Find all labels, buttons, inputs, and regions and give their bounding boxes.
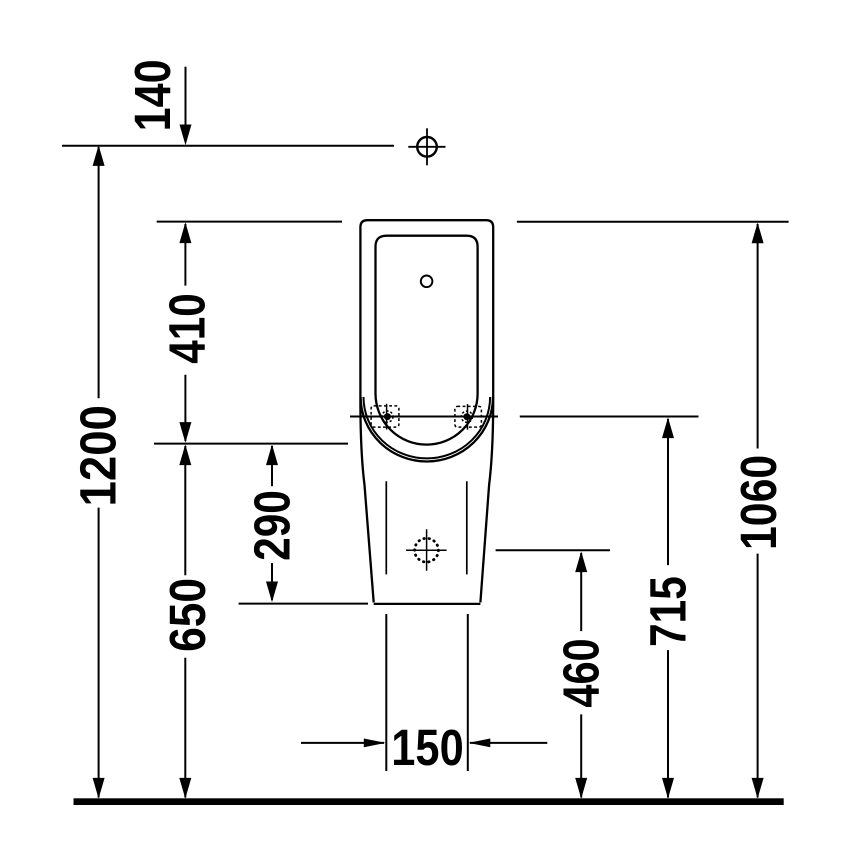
arrow up 460 [575, 551, 587, 572]
svg-text:715: 715 [640, 576, 697, 647]
extension line for 715 [520, 416, 699, 418]
svg-text:1200: 1200 [70, 405, 127, 506]
urinal bottom edge [374, 603, 481, 605]
arrow left 150 [469, 739, 491, 748]
dimension 150 left arrow line [301, 742, 384, 744]
svg-text:1060: 1060 [730, 455, 787, 550]
fixing hole left dashed box [371, 406, 399, 427]
outlet crosshair vertical [426, 529, 428, 571]
svg-text:460: 460 [553, 638, 610, 707]
arrow down 715 [662, 778, 674, 799]
crosshair target symbol [408, 128, 445, 165]
inner rim outline [376, 236, 478, 445]
dimension 1060 line [757, 224, 759, 449]
left extension line at top of urinal [157, 221, 342, 223]
extension line 410/650 boundary [154, 443, 348, 445]
dimension 150 right arrow line [470, 742, 547, 744]
dimension 1200 line [98, 147, 100, 398]
extension line at bowl bottom left (290 bottom) [239, 603, 368, 605]
arrow down 460 [575, 778, 587, 799]
fixing hole right dashed circle [461, 411, 472, 422]
fixing holes centerline [350, 416, 498, 418]
fixing hole left dashed circle [382, 411, 393, 422]
fixing hole left dot [384, 413, 391, 420]
dimension 715 line [667, 419, 669, 565]
arrow up 650 [179, 444, 191, 465]
urinal left taper edge [360, 404, 373, 602]
inner bowl arc [364, 397, 491, 458]
urinal outer outline [360, 220, 493, 404]
urinal right taper edge [480, 404, 493, 602]
svg-text:410: 410 [158, 293, 215, 364]
dimension 650 line [184, 446, 186, 575]
dimension 460 line [580, 553, 582, 631]
150 extension line right [467, 614, 469, 771]
svg-text:650: 650 [159, 578, 216, 652]
150 extension line left [385, 614, 387, 771]
outlet hole dotted circle [415, 538, 439, 562]
outlet crosshair horizontal [406, 549, 447, 551]
arrow down 650 [179, 778, 191, 799]
ground line [74, 798, 784, 805]
top reference line (1200 level) [62, 145, 394, 147]
arrow up 1060 [752, 223, 764, 244]
arrow up 715 [662, 417, 674, 438]
svg-text:140: 140 [124, 59, 181, 131]
right extension line at top of urinal [517, 221, 789, 223]
arrow right 150 [364, 739, 386, 748]
front crease line left [385, 481, 387, 574]
arrow down 410 [179, 422, 191, 443]
arrow up 410 [179, 222, 191, 243]
arrow up 1200 [93, 145, 105, 166]
fixing hole left vertical centerline [386, 404, 388, 430]
arrow up 290 [266, 444, 278, 465]
extension line for 460 [496, 549, 610, 551]
fixing hole right vertical centerline [467, 404, 469, 430]
arrow down 140 [180, 125, 192, 146]
arrow down 1060 [752, 778, 764, 799]
dimension 140 line [185, 67, 187, 142]
arrow down 1200 [93, 778, 105, 799]
dimension 410 line [184, 224, 186, 286]
svg-text:150: 150 [391, 719, 463, 776]
svg-text:290: 290 [244, 490, 301, 561]
front crease line right [466, 481, 468, 574]
fixing hole right dot [463, 413, 470, 420]
arrow down 290 [266, 582, 278, 603]
fixing hole right dashed box [455, 406, 482, 427]
dimension 290 line [271, 446, 273, 486]
spreader hole [421, 276, 433, 288]
outer bowl arc [361, 397, 493, 462]
